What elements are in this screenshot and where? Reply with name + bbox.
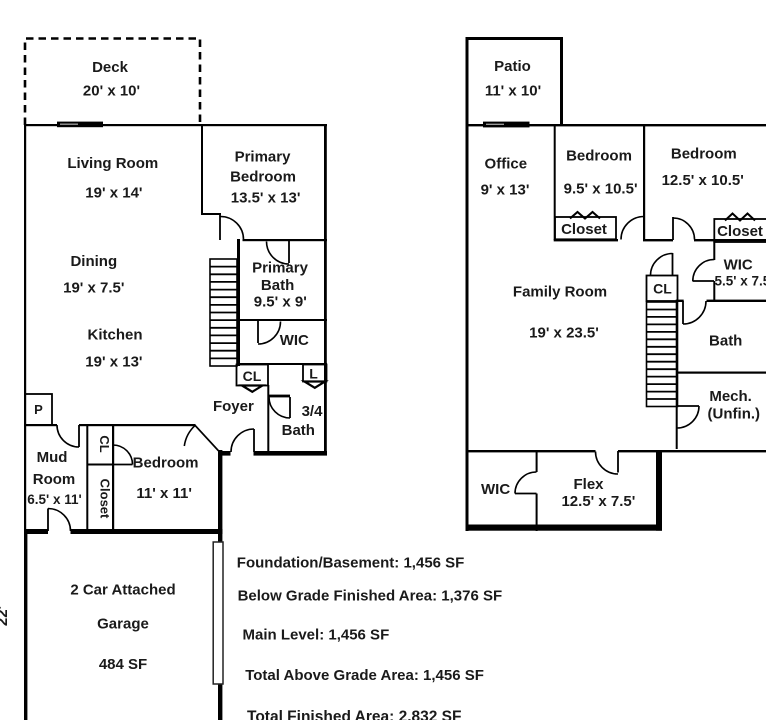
svg-text:Deck: Deck (92, 59, 129, 76)
svg-text:Foundation/Basement: 1,456 SF: Foundation/Basement: 1,456 SF (237, 554, 465, 571)
door: front entry (leaf+arc) (253, 429, 255, 452)
svg-text:Primary: Primary (252, 260, 309, 277)
svg-text:Closet: Closet (98, 479, 113, 519)
svg-text:5.5' x 7.5': 5.5' x 7.5' (715, 274, 766, 289)
deck (dashed outline) 20' x 10' (25, 39, 200, 126)
svg-text:13.5' x 13': 13.5' x 13' (231, 190, 301, 207)
door: mudroom entry (leaf+arc) (78, 425, 80, 447)
wall: 3/4 bath top header (268, 395, 290, 398)
svg-text:Garage: Garage (97, 616, 149, 633)
svg-text:Bedroom: Bedroom (566, 148, 632, 165)
wall: primary bedroom left wall (201, 125, 203, 215)
bifold arrow for L closet (305, 382, 326, 388)
closet box (bedroom 2) (714, 219, 766, 242)
svg-text:Bath: Bath (709, 333, 742, 350)
wall: closet / bedroom divider (112, 425, 114, 531)
svg-text:Main Level: 1,456 SF: Main Level: 1,456 SF (243, 627, 390, 644)
wall: WIC/flex divider (536, 451, 538, 472)
wall: bedroom hall wall with door openings (554, 239, 618, 241)
svg-text:Total Finished Area: 2,832 SF: Total Finished Area: 2,832 SF (247, 709, 461, 720)
svg-text:20' x 10': 20' x 10' (83, 83, 140, 100)
svg-text:Total Above Grade Area: 1,456: Total Above Grade Area: 1,456 SF (245, 667, 484, 684)
closet box CL at stairs (647, 276, 678, 302)
svg-text:11' x 10': 11' x 10' (485, 83, 541, 100)
wall: stairs right / bath-mech left wall (676, 301, 678, 449)
door: 3/4 bath (leaf+arc) (289, 397, 291, 418)
patio walls (thick) (466, 37, 469, 125)
wall: bedroom / bedroom divider (643, 125, 645, 240)
sliding door on deck wall (57, 122, 103, 128)
pantry box P (25, 394, 52, 425)
svg-text:Bedroom: Bedroom (230, 169, 296, 186)
door: primary bath (leaf+arc) (288, 241, 290, 263)
svg-text:19' x 7.5': 19' x 7.5' (63, 280, 124, 297)
svg-text:19' x 23.5': 19' x 23.5' (529, 325, 599, 342)
wall: garage left exterior wall (thick) (24, 529, 27, 720)
stairs (basement) (647, 302, 678, 407)
door: flex WIC (leaf+arc) (515, 493, 537, 495)
wall: office / bedroom divider (554, 125, 556, 240)
door: flex room (leaf+arc) (617, 451, 619, 473)
svg-text:Closet: Closet (717, 223, 763, 240)
door: basement WIC (leaf+arc) (693, 280, 715, 282)
wall: front exterior wall (thick) with entry opening (218, 451, 231, 456)
wall: CL / Closet divider (mud area) (87, 464, 113, 466)
wall: right exterior wall of main level (324, 124, 327, 455)
wall: basement left exterior wall (466, 124, 469, 531)
door: bedroom entry diagonal (leaf+arc) (195, 425, 219, 451)
svg-text:22': 22' (0, 606, 11, 626)
svg-text:L: L (309, 366, 318, 382)
wall: kitchen / mudroom wall (24, 424, 57, 426)
wall: foyer / 3-4 bath divider (267, 385, 269, 453)
svg-text:Room: Room (33, 471, 76, 488)
door: primary bedroom (leaf+arc) (219, 214, 221, 240)
wall: garage / house right wall (thick) (218, 450, 222, 720)
svg-text:9' x 13': 9' x 13' (481, 182, 530, 199)
svg-text:Office: Office (485, 156, 528, 173)
wall: main level top exterior wall (24, 124, 327, 126)
door: mudroom rear exit (leaf+arc) (47, 509, 49, 532)
wall: mudroom / closet divider (86, 425, 88, 531)
svg-text:Bedroom: Bedroom (133, 454, 199, 471)
svg-text:Family Room: Family Room (513, 284, 607, 301)
wall: WIC bottom wall (237, 363, 327, 365)
svg-text:Dining: Dining (70, 253, 117, 270)
closet CL (hall closet box) (237, 365, 269, 386)
svg-text:484 SF: 484 SF (99, 656, 147, 673)
svg-text:Bedroom: Bedroom (671, 146, 737, 163)
wall: primary bedroom bottom wall (243, 239, 328, 241)
svg-text:Living Room: Living Room (67, 155, 158, 172)
bifold arrow for CL closet (242, 386, 263, 392)
svg-text:WIC: WIC (481, 481, 510, 498)
wall: WIC left wall segments (basement) (713, 241, 715, 260)
wall: stairwell right wall (237, 239, 240, 366)
wall: primary bath / WIC divider (240, 319, 327, 321)
svg-text:Flex: Flex (573, 476, 604, 493)
svg-text:P: P (34, 402, 43, 417)
door: mech room (leaf+arc) (677, 405, 699, 407)
door: basement bath (leaf+arc) (682, 301, 684, 324)
wall: garage top wall (thick) with mud door opening (24, 529, 48, 534)
svg-text:Foyer: Foyer (213, 398, 254, 415)
hanger zigzag closet 2 (725, 214, 755, 221)
svg-text:12.5' x 10.5': 12.5' x 10.5' (662, 172, 744, 189)
svg-text:Mech.: Mech. (709, 388, 752, 405)
svg-text:Primary: Primary (235, 149, 292, 166)
svg-text:Below Grade Finished Area: 1,3: Below Grade Finished Area: 1,376 SF (238, 588, 503, 605)
svg-text:19' x 14': 19' x 14' (85, 185, 142, 202)
svg-text:Kitchen: Kitchen (87, 327, 142, 344)
closet box (bedroom 1) (555, 217, 616, 239)
wall: basement top exterior wall (466, 124, 766, 126)
svg-text:CL: CL (653, 281, 672, 297)
door: CL stairs closet (leaf+arc) (672, 253, 674, 276)
door: mud area CL closet (leaf+arc) (113, 464, 133, 466)
svg-text:Bath: Bath (282, 422, 315, 439)
stairs (main level) (210, 259, 237, 366)
wall: flex right exterior wall (thick) (656, 450, 662, 531)
door: bedroom 2 (leaf+arc) (672, 217, 674, 240)
svg-text:Patio: Patio (494, 58, 531, 75)
svg-text:WIC: WIC (280, 332, 309, 349)
wall: bath / mech divider (676, 372, 766, 374)
svg-text:(Unfin.): (Unfin.) (708, 406, 760, 423)
door: bedroom 1 (leaf+arc) (643, 216, 645, 240)
svg-text:19' x 13': 19' x 13' (85, 354, 142, 371)
svg-text:CL: CL (243, 368, 262, 384)
svg-text:Closet: Closet (561, 221, 607, 238)
svg-text:CL: CL (97, 435, 112, 452)
sliding door on patio wall (483, 122, 530, 128)
wall: primary bedroom closet jog (201, 213, 221, 215)
svg-text:2 Car Attached: 2 Car Attached (70, 582, 175, 599)
svg-text:6.5' x 11': 6.5' x 11' (27, 492, 81, 507)
svg-text:Bath: Bath (261, 277, 294, 294)
svg-text:9.5' x 9': 9.5' x 9' (254, 294, 307, 311)
svg-text:11' x 11': 11' x 11' (136, 485, 192, 502)
wall: family room bottom wall (466, 450, 596, 452)
svg-text:9.5' x 10.5': 9.5' x 10.5' (564, 181, 638, 198)
wall: left exterior wall of house (24, 124, 26, 534)
door: WIC walk-in closet (leaf+arc) (257, 321, 259, 343)
svg-text:Mud: Mud (37, 449, 68, 466)
wall: bath top wall with door opening (676, 300, 684, 302)
wall: flex bottom exterior wall (thick) (466, 525, 663, 531)
svg-text:3/4: 3/4 (302, 403, 324, 420)
opening symbol on garage right wall (213, 542, 223, 684)
closet L (linen closet box) (303, 365, 327, 382)
svg-text:WIC: WIC (724, 257, 753, 274)
hanger zigzag closet 1 (570, 212, 600, 219)
svg-text:12.5' x 7.5': 12.5' x 7.5' (561, 493, 635, 510)
